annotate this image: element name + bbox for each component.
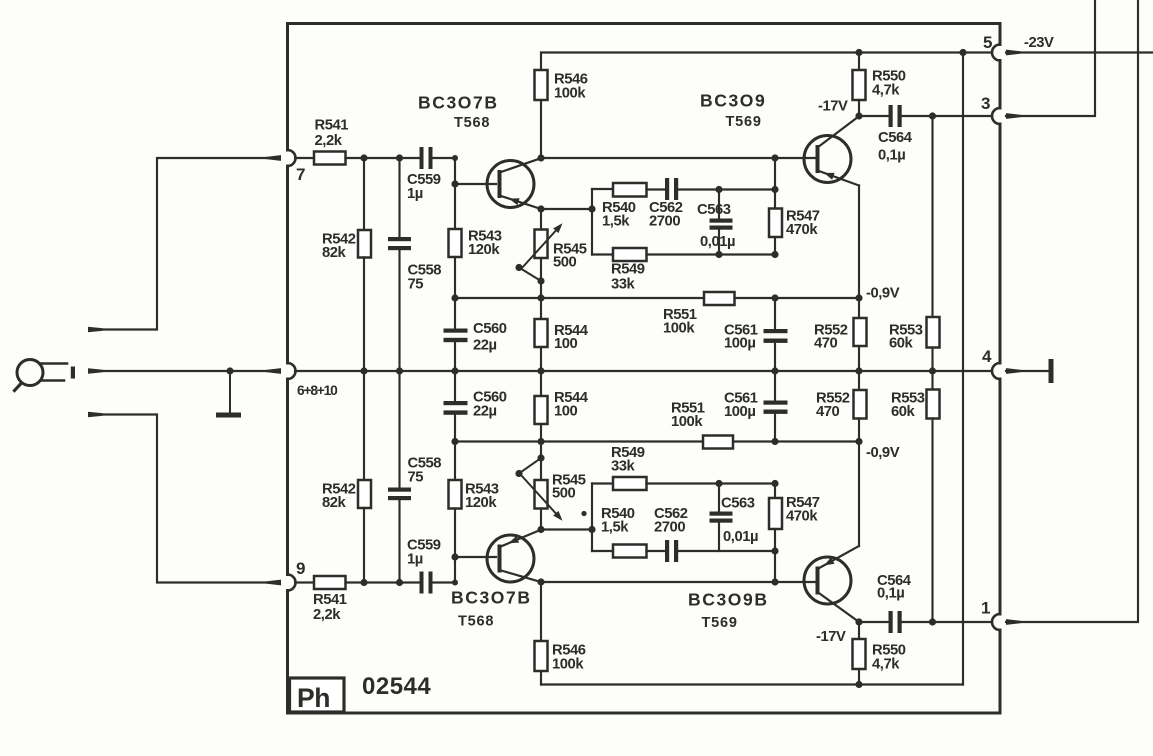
resistor R544 top (540, 298, 542, 319)
microphone input plug symbol (17, 360, 43, 386)
transistor T568 top BC307B (487, 158, 541, 209)
resistor R551 bottom (703, 436, 733, 449)
capacitor C561 bottom (774, 371, 776, 401)
svg-text:100µ: 100µ (724, 404, 755, 420)
wire input bottom branch to terminal 9 (88, 412, 103, 417)
wire input top branch to terminal 7 (88, 327, 103, 332)
resistor R546 top (540, 100, 542, 158)
node C563 top junction (715, 186, 722, 193)
wire emitter to node A bottom (541, 528, 592, 530)
svg-text:100k: 100k (671, 414, 703, 430)
node corner C559 bottom (452, 580, 458, 586)
svg-text:C563: C563 (697, 202, 731, 218)
node R547 bottom upper (771, 480, 778, 487)
svg-text:1,5k: 1,5k (601, 520, 629, 536)
svg-text:BC3O7B: BC3O7B (451, 588, 532, 608)
capacitor C564 bottom (859, 621, 889, 623)
node C564-R553 top (929, 112, 936, 119)
svg-text:6+8+10: 6+8+10 (297, 383, 338, 398)
svg-text:T569: T569 (702, 615, 738, 631)
svg-text:T569: T569 (726, 114, 762, 130)
svg-text:33k: 33k (611, 459, 636, 475)
svg-text:0,1µ: 0,1µ (877, 586, 904, 602)
wire terminal 9 row (295, 581, 314, 583)
capacitor C560 top (454, 298, 456, 329)
node T568 emitter bottom (537, 526, 544, 533)
svg-text:BC3O9: BC3O9 (700, 91, 766, 111)
node T568 base bottom (451, 553, 458, 560)
input label I (71, 367, 75, 379)
node -0,9V R545 top (537, 294, 544, 301)
potentiometer R545 bottom (540, 442, 542, 481)
svg-text:R541: R541 (313, 592, 347, 608)
node T568 collector top (537, 154, 544, 161)
svg-text:500: 500 (552, 486, 576, 502)
svg-text:4,7k: 4,7k (872, 657, 900, 673)
resistor R552 top (858, 298, 860, 318)
svg-text:C564: C564 (878, 130, 913, 146)
svg-text:33k: 33k (611, 277, 636, 293)
svg-text:100: 100 (554, 336, 578, 352)
node T568 collector bottom (537, 578, 544, 585)
svg-text:7: 7 (296, 165, 305, 184)
node R549-C563 bottom (715, 480, 722, 487)
wire T568 collector to T569 base top (541, 157, 816, 159)
node R549-C563 top (715, 251, 722, 258)
svg-text:470k: 470k (786, 509, 818, 525)
wiper tap R545 top (515, 264, 522, 271)
svg-text:22µ: 22µ (473, 404, 497, 420)
svg-text:60k: 60k (889, 336, 914, 352)
svg-text:1µ: 1µ (407, 186, 423, 202)
svg-text:470k: 470k (786, 222, 818, 238)
node mid C558 (396, 367, 403, 374)
svg-text:0,1µ: 0,1µ (878, 148, 905, 164)
node R542 top join (360, 154, 367, 161)
node corner C559 top (452, 155, 458, 161)
node R550 bottom rail (855, 681, 862, 688)
wire terminal 4 common with end bar (1006, 368, 1021, 374)
capacitor C561 top (774, 298, 776, 329)
svg-text:2700: 2700 (649, 214, 680, 230)
svg-text:R541: R541 (315, 118, 349, 134)
svg-text:Ph: Ph (297, 683, 330, 713)
capacitor C562 bottom (647, 550, 666, 552)
resistor R541 top (314, 152, 346, 165)
resistor R550 top (855, 49, 862, 56)
resistor R552 bottom (858, 371, 860, 390)
potentiometer R545 top (540, 209, 542, 230)
node -17V top (855, 112, 862, 119)
wire R541 to C559 top (346, 157, 420, 159)
wire emitter to node A top (541, 208, 592, 210)
svg-text:02544: 02544 (362, 673, 431, 700)
node -0,9V C560 top (451, 294, 458, 301)
node -17V bottom (855, 618, 862, 625)
transistor T568 bottom BC307B (487, 530, 541, 582)
node C558 bottom join (396, 579, 403, 586)
resistor R541 bottom (314, 576, 346, 589)
svg-text:0,01µ: 0,01µ (723, 529, 758, 545)
svg-text:75: 75 (408, 470, 424, 486)
node T569 emitter -0,9V bottom (855, 438, 862, 445)
wire output terminal 1 to top edge (1006, 619, 1021, 625)
resistor R540 bottom (592, 550, 613, 552)
node mid R552 (855, 367, 862, 374)
wire T569 emitter down to -0,9V top (858, 186, 860, 299)
wire R541 to C559 bottom (346, 581, 420, 583)
svg-text:1: 1 (981, 599, 990, 618)
svg-text:1µ: 1µ (407, 552, 423, 568)
svg-text:100µ: 100µ (724, 336, 755, 352)
transistor T569 top BC309 (804, 116, 859, 185)
svg-text:0,01µ: 0,01µ (700, 234, 735, 250)
svg-text:9: 9 (296, 559, 305, 578)
resistor R542 top (363, 158, 365, 230)
wire T569 emitter up to -0,9V bottom (858, 442, 860, 547)
svg-text:C560: C560 (473, 321, 507, 337)
node tie top (959, 49, 966, 56)
svg-text:-17V: -17V (818, 99, 848, 115)
svg-text:500: 500 (553, 255, 577, 271)
wire terminal 7 row (295, 157, 314, 159)
svg-text:120k: 120k (465, 495, 497, 511)
svg-text:4,7k: 4,7k (872, 83, 900, 99)
wire -23V supply from terminal 5 to right edge (1006, 50, 1021, 56)
node C564-R553 bottom (929, 618, 936, 625)
capacitor C559 top (420, 147, 424, 169)
resistor R544 bottom (540, 371, 542, 396)
svg-text:BC3O9B: BC3O9B (688, 590, 769, 610)
capacitor C559 bottom (420, 572, 424, 594)
svg-text:C563: C563 (721, 496, 755, 512)
node T569 emitter -0,9V top (855, 294, 862, 301)
svg-text:82k: 82k (322, 245, 347, 261)
wire -23V top rail (541, 51, 992, 53)
capacitor C562 top (647, 188, 666, 190)
capacitor C558 top (398, 158, 400, 237)
capacitor C563 bottom (718, 484, 720, 512)
svg-text:2,2k: 2,2k (313, 607, 341, 623)
node T569 base tie bottom (771, 578, 778, 585)
svg-text:2,2k: 2,2k (315, 133, 343, 149)
capacitor C564 top (859, 115, 889, 117)
svg-text:5: 5 (983, 33, 992, 52)
node R547 top lower (771, 251, 778, 258)
wire output terminal 3 to top edge (1006, 113, 1021, 119)
svg-text:-17V: -17V (816, 629, 846, 645)
svg-text:22µ: 22µ (473, 338, 497, 354)
svg-text:R549: R549 (611, 262, 645, 278)
svg-text:-0,9V: -0,9V (866, 286, 900, 302)
wire T568 collector to T569 base bottom (541, 581, 816, 583)
resistor R550 bottom (858, 622, 860, 639)
resistor R543 bottom (454, 442, 456, 481)
wire C559 to T568 base bottom (433, 557, 497, 583)
node R547 top upper (771, 186, 778, 193)
svg-text:-0,9V: -0,9V (866, 445, 900, 461)
svg-text:470: 470 (816, 404, 840, 420)
resistor R553 bottom (931, 371, 933, 390)
Ph logo box (290, 678, 345, 712)
capacitor C558 bottom (398, 371, 400, 488)
node mid R542 (360, 367, 367, 374)
capacitor C563 top (718, 190, 720, 219)
node C561 bottom rail (771, 438, 778, 445)
transistor T569 bottom BC309B (804, 546, 859, 622)
node mid C561 (771, 367, 778, 374)
node C558 top join (396, 154, 403, 161)
wiper tap R545 bottom (515, 470, 522, 477)
wire -23V bottom rail (541, 683, 963, 685)
resistor R543 top (454, 184, 456, 229)
node T568 base top (451, 180, 458, 187)
resistor R551 top (704, 292, 735, 305)
resistor R547 bottom (774, 484, 776, 499)
node mid C560 (451, 367, 458, 374)
svg-text:100k: 100k (663, 321, 695, 337)
wire input middle branch to terminal 6+8+10 (88, 368, 103, 373)
svg-text:82k: 82k (322, 495, 347, 511)
node A network top (588, 205, 595, 212)
capacitor C560 bottom (454, 371, 456, 401)
wire middle common rail terminal 6+8+10 to terminal 4 (295, 370, 992, 372)
resistor R540 top (592, 188, 613, 190)
node C561 top rail (771, 294, 778, 301)
resistor R547 top (774, 158, 776, 209)
svg-text:100k: 100k (554, 86, 586, 102)
node mid R544 (537, 367, 544, 374)
wire network left vertical top (591, 189, 593, 255)
wire C559 to T568 base top (433, 158, 497, 184)
svg-text:75: 75 (408, 277, 424, 293)
svg-text:120k: 120k (468, 242, 500, 258)
svg-text:BC3O7B: BC3O7B (418, 93, 499, 113)
wire -23V tie line right column (962, 53, 964, 685)
marker dot left of R540 bottom (581, 511, 586, 516)
node T568 emitter top (537, 205, 544, 212)
resistor R542 bottom (363, 371, 365, 480)
svg-text:60k: 60k (891, 404, 916, 420)
resistor R546 bottom (540, 582, 542, 641)
svg-text:T568: T568 (454, 115, 490, 131)
wire -0,9V top rail (455, 297, 704, 299)
svg-text:100: 100 (554, 404, 578, 420)
svg-text:3: 3 (981, 94, 990, 113)
node R542 bottom join (360, 579, 367, 586)
border frame of schematic (decorative outer box) (286, 24, 289, 151)
node R547 bottom lower (771, 547, 778, 554)
ground symbol on input common (229, 371, 231, 413)
wire -0,9V bottom rail (455, 440, 703, 442)
node -0,9V C560 bottom (451, 438, 458, 445)
node A network bottom (588, 526, 595, 533)
node T569 base tie top (771, 154, 778, 161)
svg-text:1,5k: 1,5k (602, 214, 630, 230)
svg-text:-23V: -23V (1024, 35, 1054, 51)
svg-text:2700: 2700 (654, 520, 685, 536)
svg-text:4: 4 (982, 347, 992, 366)
wire network left vertical bottom (591, 484, 593, 552)
node -0,9V R545 bottom (537, 438, 544, 445)
resistor R549 top (592, 253, 613, 255)
resistor R553 top (931, 116, 933, 317)
svg-text:470: 470 (814, 336, 838, 352)
node input ground junction (226, 367, 233, 374)
node mid R553 (929, 367, 936, 374)
resistor R549 bottom (592, 482, 613, 484)
svg-text:T568: T568 (458, 614, 494, 630)
svg-text:100k: 100k (552, 657, 584, 673)
